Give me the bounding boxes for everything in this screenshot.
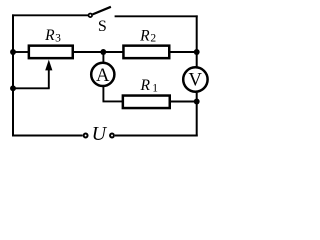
wire R2 to right xyxy=(169,51,196,53)
svg-text:R: R xyxy=(139,77,150,94)
switch S xyxy=(89,7,111,35)
resistor R3 xyxy=(29,27,73,58)
node junction right R2 row xyxy=(194,49,200,55)
terminal U left xyxy=(84,134,88,138)
resistor R2 xyxy=(123,27,169,58)
wire node to ammeter xyxy=(102,52,104,64)
svg-text:U: U xyxy=(92,123,108,145)
node junction left R3 row xyxy=(10,49,16,55)
svg-text:3: 3 xyxy=(55,32,61,44)
node junction left wiper row xyxy=(10,85,16,91)
terminal U right xyxy=(110,134,114,138)
wire top left xyxy=(12,14,88,16)
wire left vertical xyxy=(12,14,14,136)
node junction A column xyxy=(100,49,106,55)
svg-text:R: R xyxy=(44,27,55,44)
voltmeter V xyxy=(183,67,207,91)
svg-text:2: 2 xyxy=(150,33,156,45)
wire R1 to right xyxy=(169,101,197,103)
svg-text:A: A xyxy=(96,65,110,86)
wire right vertical upper xyxy=(196,15,198,67)
wire ammeter down xyxy=(102,85,104,101)
svg-text:R: R xyxy=(139,27,150,44)
wire right vertical lower xyxy=(196,93,198,137)
wire wiper horizontal xyxy=(13,87,50,89)
wire R3 to node xyxy=(72,51,125,53)
svg-text:1: 1 xyxy=(152,82,158,94)
wire top right xyxy=(115,15,198,17)
wire R3 row left xyxy=(13,51,29,53)
wire bottom left xyxy=(12,135,83,137)
resistor R1 xyxy=(123,77,170,108)
svg-text:V: V xyxy=(188,69,202,90)
node junction right R1 row xyxy=(194,99,200,105)
wire bottom right xyxy=(115,135,198,137)
wire ammeter to R1 xyxy=(103,100,124,102)
svg-text:S: S xyxy=(98,18,107,35)
ammeter A xyxy=(91,63,114,86)
wiper arrow of R3 xyxy=(45,60,52,89)
